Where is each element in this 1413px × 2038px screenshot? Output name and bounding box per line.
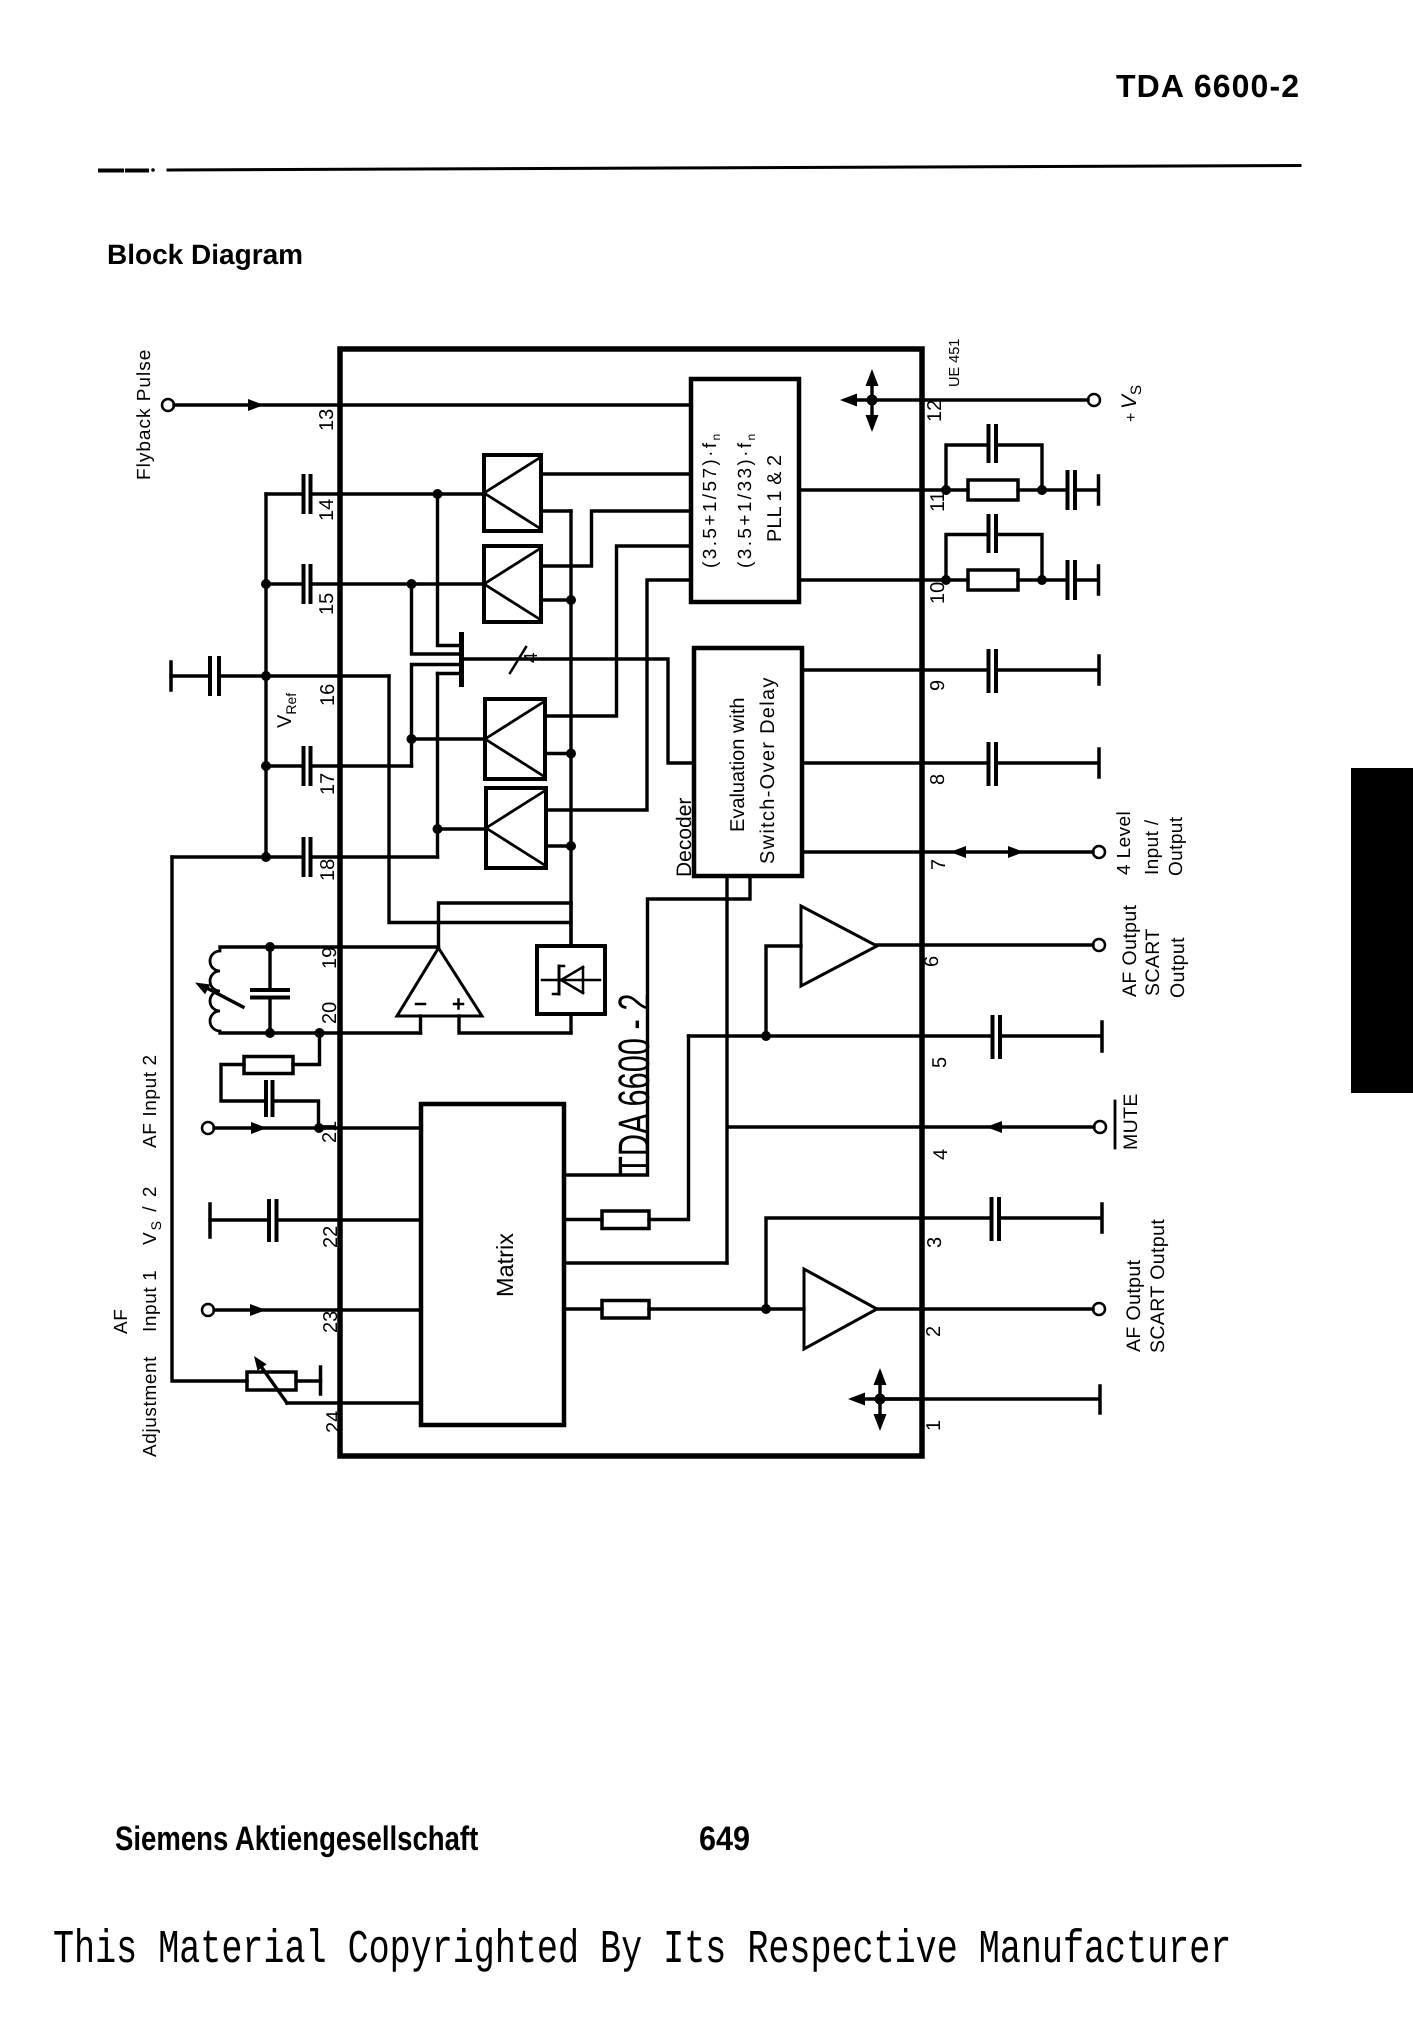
- wire pin 5 external: [922, 1034, 1100, 1037]
- junction dot tank top: [265, 942, 275, 952]
- supply cross pin 12: [840, 369, 922, 432]
- wire matrix to R1: [564, 1218, 602, 1221]
- capacitor C9: [989, 651, 997, 691]
- wire amp A1 input: [766, 946, 801, 1036]
- wire pin 9 external: [922, 668, 1097, 671]
- node pin 10 left: [941, 575, 951, 585]
- svg-text:+: +: [1123, 413, 1140, 422]
- svg-text:TDA 6600-2: TDA 6600-2: [1116, 68, 1300, 104]
- wire pin 11 internal: [799, 488, 922, 491]
- wire pin 8 internal: [802, 761, 922, 764]
- op-amp U1: [397, 948, 482, 1016]
- junction dots pin 20: [265, 1028, 275, 1038]
- svg-text:SCART Output: SCART Output: [1147, 1219, 1169, 1353]
- wire pin 12 external: [922, 398, 1088, 401]
- terminal pin 23 AF Input 1: [202, 1304, 214, 1316]
- wire mixer M3 output a: [545, 546, 691, 716]
- wire op-amp minus input: [419, 1016, 422, 1033]
- svg-text:11: 11: [927, 491, 949, 512]
- svg-text:AF: AF: [111, 1309, 132, 1334]
- svg-text:9: 9: [927, 680, 949, 691]
- svg-text:6: 6: [921, 956, 943, 967]
- wire mixer M2 output b: [541, 598, 571, 601]
- svg-text:This Material Copyrighted By I: This Material Copyrighted By Its Respect…: [53, 1924, 1231, 1977]
- wire pin 10 external: [922, 578, 1096, 581]
- ground stub pin 16: [169, 662, 173, 690]
- junction dot pin 21: [314, 1123, 324, 1133]
- diode box D1: [537, 946, 605, 1014]
- wire diode box bottom lead: [569, 1014, 572, 1033]
- node rail B mixer M3 input: [407, 734, 417, 744]
- wire summing rail: [569, 511, 572, 946]
- svg-text:17: 17: [317, 773, 339, 795]
- wire mixer M4 input: [438, 829, 487, 857]
- svg-text:18: 18: [317, 859, 339, 881]
- node mixer M3 rail: [566, 749, 576, 759]
- wire pin 5 internal: [689, 1034, 923, 1037]
- svg-text:4 Level: 4 Level: [1114, 811, 1135, 875]
- wire mixer M4 output b: [546, 844, 571, 847]
- wire pin 1 external: [922, 1397, 1098, 1400]
- terminal pin 13 Flyback Pulse: [162, 399, 174, 411]
- wire mixer M4 output a: [546, 580, 691, 810]
- wire pin 19: [220, 945, 439, 948]
- wire pin 6 external: [922, 943, 1093, 946]
- wire matrix to pin4 riser: [564, 1261, 727, 1264]
- wire rail A gate lead 2: [438, 672, 460, 675]
- potentiometer R24: [247, 1372, 296, 1390]
- node rail A mixer M4 input: [433, 824, 443, 834]
- mixer M1: [484, 455, 541, 531]
- arrows pin 7 bidirectional: [950, 846, 1024, 858]
- junction dots left rail: [261, 579, 271, 589]
- svg-text:7: 7: [928, 859, 950, 870]
- svg-text:5: 5: [929, 1057, 951, 1068]
- svg-text:10: 10: [927, 582, 949, 604]
- resistor R1: [602, 1211, 649, 1229]
- wire pin 3 external: [922, 1216, 1100, 1219]
- svg-text:649: 649: [699, 1820, 750, 1858]
- wire op-amp plus input: [459, 1016, 571, 1033]
- wire Q1 output bus: [464, 659, 694, 763]
- wire pin 15: [266, 582, 484, 585]
- wire rail B upper: [412, 584, 460, 654]
- wire rail A lower: [436, 674, 439, 830]
- ground stub pin 11: [1097, 476, 1101, 504]
- ground stub pin 5: [1100, 1022, 1104, 1051]
- wire pin 24: [287, 1401, 421, 1404]
- wire pin 10 internal: [799, 578, 922, 581]
- wire matrix to pin5 riser: [649, 1036, 689, 1220]
- svg-text:16: 16: [317, 684, 339, 706]
- wire pin 14: [266, 492, 484, 495]
- svg-text:VRef: VRef: [274, 693, 299, 728]
- svg-text:Output: Output: [1167, 937, 1189, 998]
- svg-text:3: 3: [924, 1237, 946, 1248]
- svg-text:VS / 2: VS / 2: [140, 1185, 164, 1245]
- svg-text:AF Output: AF Output: [1123, 1259, 1145, 1352]
- capacitor C16: [210, 658, 219, 694]
- wire pin 7 internal: [802, 850, 922, 853]
- svg-text:PLL 1 & 2: PLL 1 & 2: [764, 455, 786, 542]
- wire pin 16: [171, 674, 389, 677]
- block PLL 1 & 2: [691, 379, 799, 602]
- terminal pin 21 AF Input 2: [202, 1122, 214, 1134]
- arrow on pin 23 wire: [250, 1304, 266, 1316]
- node rail A pin14: [433, 489, 443, 499]
- mixer M4: [486, 788, 546, 868]
- parallel capacitor C10a: [946, 535, 1042, 581]
- wire mixer M1 output b: [541, 509, 571, 512]
- wire pin 20: [220, 1031, 421, 1034]
- header rule: [168, 166, 1300, 171]
- wire rail B lower: [412, 665, 460, 740]
- node mixer M4 rail: [566, 841, 576, 851]
- arrow on pin 21 wire: [251, 1122, 267, 1134]
- svg-text:4: 4: [521, 652, 542, 663]
- transistor Q1 gate bar: [459, 632, 464, 687]
- svg-text:Switch-Over Delay: Switch-Over Delay: [757, 676, 779, 864]
- wire pin 7 external: [922, 850, 1093, 853]
- svg-text:24: 24: [323, 1411, 345, 1433]
- wire pin 21: [214, 1126, 421, 1129]
- series capacitor C11b: [1068, 472, 1076, 508]
- node pin 11 right: [1037, 485, 1047, 495]
- svg-text:(3.5+1/57)·fn: (3.5+1/57)·fn: [700, 431, 723, 568]
- ground stub pin 1: [1098, 1386, 1102, 1413]
- coil adjust arrow: [203, 986, 243, 1007]
- header rule dot: [151, 168, 155, 172]
- svg-text:Input 1: Input 1: [140, 1270, 161, 1332]
- ground stub pin 9: [1097, 656, 1101, 684]
- svg-text:Adjustment: Adjustment: [140, 1356, 161, 1457]
- svg-text:Flyback Pulse: Flyback Pulse: [134, 349, 155, 480]
- series resistor R20: [293, 1033, 320, 1065]
- svg-text:4: 4: [930, 1149, 952, 1160]
- wire mixer M1 output a: [541, 472, 691, 475]
- wire amp A1 output pin 6: [877, 943, 922, 946]
- svg-text:VS: VS: [1118, 385, 1145, 409]
- capacitor C18: [304, 839, 311, 875]
- svg-text:15: 15: [316, 593, 338, 615]
- svg-text:14: 14: [316, 499, 338, 521]
- svg-text:12: 12: [924, 400, 946, 422]
- supply cross pin 1: [848, 1368, 922, 1431]
- wire R2 to amp A2: [649, 1307, 804, 1310]
- svg-text:AF Output: AF Output: [1119, 904, 1141, 997]
- svg-text:2: 2: [923, 1326, 945, 1337]
- bus width slash /4: [510, 647, 526, 673]
- svg-text:21: 21: [319, 1121, 341, 1143]
- wire pin 23: [214, 1308, 421, 1311]
- ground stub pin 8: [1097, 749, 1101, 777]
- left bypass rail: [264, 494, 267, 857]
- IC boundary TDA 6600-2: [340, 349, 922, 1456]
- capacitor C17: [304, 748, 311, 784]
- wire pin16 net to rail: [389, 676, 571, 923]
- terminal pin 6: [1093, 939, 1105, 951]
- wire pin 4 external: [922, 1125, 1094, 1128]
- wire mixer M3 input: [412, 739, 486, 766]
- block Evaluation with Switch-Over Delay: [694, 648, 802, 876]
- amplifier A1: [801, 906, 877, 986]
- capacitor C3: [992, 1199, 1000, 1239]
- wire mixer M2 output a: [541, 511, 691, 566]
- capacitor C14: [304, 476, 311, 512]
- capacitor C22: [269, 1201, 277, 1240]
- svg-text:13: 13: [316, 409, 338, 431]
- wire pin 9 internal: [802, 668, 922, 671]
- svg-text:20: 20: [319, 1002, 341, 1024]
- wire pin 1 internal: [880, 1397, 922, 1400]
- terminal pin 2: [1093, 1303, 1105, 1315]
- ground stub pin 3: [1100, 1204, 1104, 1232]
- node pin5 junction: [761, 1031, 771, 1041]
- terminal pin 7: [1093, 846, 1105, 858]
- svg-text:Siemens Aktiengesellschaft: Siemens Aktiengesellschaft: [115, 1820, 478, 1858]
- wire amp A2 output pin 2: [877, 1307, 922, 1310]
- wire pin 22: [210, 1218, 421, 1221]
- wire matrix to R2: [564, 1307, 602, 1310]
- wire pin 17: [266, 764, 412, 767]
- svg-text:(3.5+1/33)·fn: (3.5+1/33)·fn: [735, 431, 758, 568]
- ground stub pin 10: [1097, 566, 1101, 594]
- svg-text:SCART: SCART: [1142, 928, 1164, 996]
- wire pin 18: [172, 855, 438, 858]
- parallel capacitor C11a: [946, 445, 1042, 490]
- header rule dashes: [100, 169, 147, 173]
- node rail B pin15: [407, 579, 417, 589]
- svg-text:Output: Output: [1166, 816, 1187, 876]
- block Matrix: [421, 1104, 564, 1425]
- resistor R11: [968, 480, 1018, 500]
- svg-text:23: 23: [320, 1311, 342, 1333]
- svg-text:Input /: Input /: [1142, 819, 1163, 875]
- svg-text:Matrix: Matrix: [492, 1233, 518, 1297]
- wire pin 13: [174, 403, 691, 406]
- wire pin 8 external: [922, 761, 1097, 764]
- wire evaluation to matrix: [564, 876, 750, 1175]
- ground stub potentiometer: [319, 1367, 323, 1394]
- svg-text:1: 1: [923, 1420, 945, 1431]
- svg-text:Block Diagram: Block Diagram: [107, 239, 303, 270]
- arrow pin 4 MUTE: [986, 1121, 1002, 1133]
- svg-text:Evaluation with: Evaluation with: [727, 697, 749, 832]
- resistor R2: [602, 1301, 649, 1319]
- amplifier A2: [804, 1269, 877, 1349]
- terminal +VS: [1088, 394, 1100, 406]
- tank coil L1: [210, 947, 220, 1033]
- capacitor C8: [989, 744, 997, 784]
- svg-text:MUTE: MUTE: [1120, 1093, 1142, 1150]
- ground stub pin 22: [208, 1204, 212, 1237]
- wire mixer M3 output b: [545, 752, 571, 755]
- svg-text:TDA 6600 - 2: TDA 6600 - 2: [610, 994, 659, 1175]
- wire diode box top lead: [569, 903, 572, 946]
- wire pin 11 external: [922, 488, 1096, 491]
- node amp A2 input: [761, 1304, 771, 1314]
- tank capacitor C19: [252, 990, 288, 998]
- wire pin 3 internal: [766, 1218, 922, 1309]
- wire pin 4 internal: [727, 876, 922, 1263]
- svg-text:22: 22: [320, 1226, 342, 1248]
- mixer M3: [485, 699, 545, 779]
- left outer rail to potentiometer: [172, 857, 247, 1381]
- svg-text:19: 19: [319, 947, 341, 969]
- side tab black: [1351, 768, 1413, 1093]
- capacitor C5: [993, 1017, 1001, 1057]
- node pin 10 right: [1037, 575, 1047, 585]
- svg-text:8: 8: [927, 774, 949, 785]
- terminal pin 4: [1094, 1121, 1106, 1133]
- capacitor C15: [304, 566, 311, 602]
- node mixer M2 rail: [566, 595, 576, 605]
- series capacitor C21: [266, 1082, 273, 1115]
- series capacitor C10b: [1068, 562, 1076, 598]
- svg-text:UE 451: UE 451: [947, 339, 963, 387]
- wire pin 2 external: [922, 1307, 1093, 1310]
- arrow on pin 13 wire: [248, 399, 264, 411]
- wire rail A upper: [438, 494, 460, 646]
- svg-text:AF Input 2: AF Input 2: [140, 1054, 161, 1148]
- wire op-amp output to rail: [439, 903, 572, 947]
- mixer M2: [484, 546, 541, 622]
- resistor R10: [968, 570, 1018, 590]
- svg-text:Decoder: Decoder: [673, 798, 696, 877]
- node pin 11 left: [941, 485, 951, 495]
